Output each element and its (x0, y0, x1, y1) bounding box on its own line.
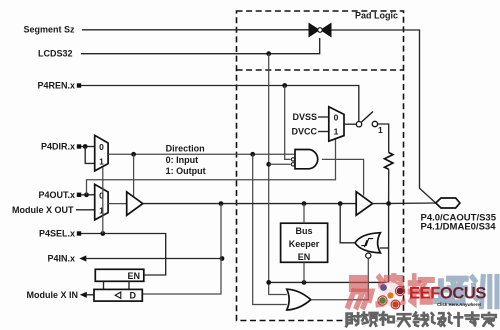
svg-text:0: Input: 0: Input (166, 155, 199, 165)
svg-text:1: 1 (334, 127, 339, 137)
wire switch to resistor (378, 124, 389, 153)
svg-text:LCDS32: LCDS32 (38, 49, 73, 59)
bus keeper box (281, 223, 328, 262)
junction keeper line mid (302, 280, 307, 285)
wire to NAND lower input (269, 163, 291, 165)
wire pad driver output to pad (373, 202, 436, 205)
wire P4DIR to mux (81, 146, 95, 148)
svg-text:P4DIR.x: P4DIR.x (41, 142, 75, 152)
OR gate (287, 289, 311, 310)
wire OR output to schmitt enable (311, 258, 369, 299)
wire pad net down to bus keeper line (269, 204, 389, 283)
node Module X IN (27, 290, 87, 300)
char yi (348, 278, 372, 306)
svg-text:1: 1 (99, 157, 104, 167)
junction P4DIR (83, 144, 88, 149)
wire mux to buffer (108, 203, 127, 205)
node pad names (421, 213, 497, 233)
svg-text:EN: EN (127, 271, 140, 281)
wire LCDS32 vertical (268, 54, 270, 283)
char tuo (410, 276, 433, 303)
wire bus keeper top (303, 204, 305, 224)
buffer pad driver (356, 192, 372, 216)
svg-text:0: 0 (334, 113, 339, 123)
wire P4SEL to mux selects (102, 167, 104, 234)
svg-text:Module X OUT: Module X OUT (12, 205, 74, 215)
char pei (436, 279, 466, 303)
junction pad line to schmitt output (338, 201, 343, 206)
pad hexagon P4 pin (436, 198, 460, 208)
svg-text:P4REN.x: P4REN.x (37, 81, 75, 91)
svg-text:DVCC: DVCC (291, 127, 317, 137)
svg-text:P4SEL.x: P4SEL.x (39, 229, 75, 239)
svg-text:P4IN.x: P4IN.x (47, 254, 75, 264)
svg-text:P4.1/DMAE0/S34: P4.1/DMAE0/S34 (421, 222, 497, 233)
junction pad line to input path (219, 201, 224, 206)
wire AND output to buffer enable (322, 159, 364, 195)
schmitt trigger input buffer (355, 233, 380, 259)
svg-text:DVSS: DVSS (292, 112, 317, 122)
svg-text:EEFOCUS: EEFOCUS (409, 285, 486, 303)
svg-text:Segment Sz: Segment Sz (23, 24, 75, 34)
wire schmitt input tap (380, 247, 389, 249)
junction keeper line left (266, 280, 271, 285)
wire P4SEL to EN box (81, 234, 166, 276)
node P4DIR.x (41, 142, 81, 152)
wire Segment Sz to transmission gate (82, 29, 309, 31)
svg-text:1: Output: 1: Output (166, 166, 206, 176)
wire Direction to OR input (253, 154, 287, 304)
wire Direction to output buffer enable (133, 154, 135, 197)
AND gate pad driver enable (291, 150, 317, 169)
wire pad line (143, 203, 356, 205)
mux direction (P4DIR) (95, 135, 108, 171)
mux output (P4OUT) (95, 184, 108, 220)
svg-text:D: D (130, 291, 137, 301)
junction pad net resistor tap (386, 201, 391, 206)
latch connectors (103, 281, 105, 289)
wire P4OUT to mux (81, 194, 95, 196)
wire LCDS32 to gate control (81, 38, 320, 54)
svg-text:Keeper: Keeper (289, 239, 320, 249)
switch (pull resistor enable) (356, 112, 383, 136)
svg-text:Pad Logic: Pad Logic (355, 11, 398, 21)
wire P4REN to switch (81, 86, 359, 122)
junction P4OUT (84, 192, 89, 197)
buffer output driver (127, 192, 143, 215)
watermark big characters (348, 276, 497, 306)
char xun (472, 277, 497, 307)
wire P4OUT long line to DVSS mux select (87, 139, 336, 195)
junction Direction B (250, 152, 255, 157)
wire schmitt output to pad line (340, 204, 355, 243)
junction P4REN branch (282, 83, 287, 88)
svg-text:EN: EN (298, 252, 311, 262)
svg-text:Bus: Bus (295, 226, 312, 236)
junction LCDS32 (266, 51, 271, 56)
node Segment Sz (23, 24, 75, 34)
junction pad line to bus keeper (302, 201, 307, 206)
wire P4IN line (85, 258, 222, 260)
svg-text:0: 0 (99, 142, 104, 152)
junction P4SEL (100, 231, 105, 236)
wire P4DIR to mux input 1 (85, 147, 95, 164)
junction LCDS32 to NAND input (266, 162, 271, 167)
Pad Logic dashed box (237, 11, 404, 321)
node P4SEL.x (39, 229, 81, 239)
junction P4IN (220, 256, 225, 261)
node P4OUT.x (38, 190, 81, 200)
watermark logo (377, 282, 404, 309)
svg-text:1: 1 (378, 125, 383, 135)
wire mux to switch (344, 123, 356, 125)
wire Module X IN from latch (86, 294, 94, 296)
node P4IN.x (47, 254, 86, 264)
wire Direction line (108, 153, 295, 155)
node Module X OUT (12, 205, 74, 215)
transmission gate (segment switch) (309, 23, 332, 38)
char di (378, 276, 403, 304)
wire gate to pad corner (332, 30, 436, 203)
svg-text:Module X IN: Module X IN (27, 290, 79, 300)
node Direction label (166, 143, 206, 176)
mux DVSS/DVCC (291, 107, 344, 141)
latch D box (94, 289, 142, 301)
wire pad line to P4IN and latch (142, 204, 221, 294)
watermark gray slogan (346, 312, 495, 326)
node P4REN.x (37, 81, 81, 91)
wire bus keeper bottom (303, 262, 305, 282)
svg-text:Click Here.Anywhere!: Click Here.Anywhere! (437, 302, 482, 307)
svg-text:P4OUT.x: P4OUT.x (38, 190, 75, 200)
latch EN box (95, 269, 144, 281)
node LCDS32 (38, 49, 73, 59)
watermark EEFOCUS text (409, 285, 486, 308)
svg-text:Direction: Direction (166, 143, 205, 153)
junction Direction A (131, 152, 136, 157)
wire P4REN branch to NAND input (285, 86, 291, 160)
wire resistor to pad line (388, 169, 390, 203)
wire to OR input upper (269, 282, 287, 294)
resistor pull-up/down (385, 153, 393, 170)
wire Module X OUT to mux (76, 209, 95, 211)
